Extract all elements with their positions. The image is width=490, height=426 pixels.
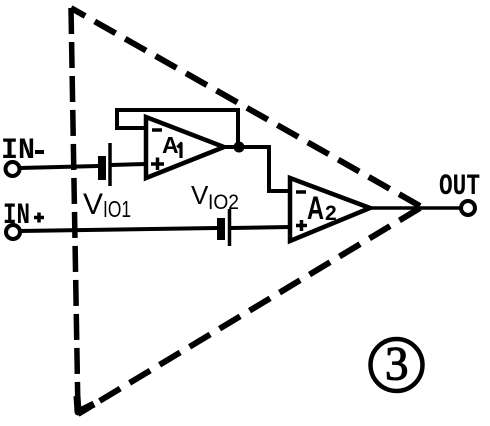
figure number 3 circled	[371, 338, 423, 392]
svg-text:V: V	[191, 180, 209, 210]
label IN-	[1, 134, 44, 168]
dashed boundary triangle left side	[71, 8, 78, 414]
op-amp A1	[146, 117, 224, 178]
feedback wire A1 output to A1 minus input	[117, 110, 238, 147]
svg-text:3: 3	[385, 338, 409, 391]
junction node at A1 output	[234, 142, 245, 153]
wire VIO1 to A1 plus input	[111, 164, 146, 165]
wire A2 output to OUT terminal	[370, 206, 461, 210]
svg-text:IO1: IO1	[103, 196, 131, 222]
wire IN- terminal to VIO1	[20, 166, 99, 168]
terminal IN+	[6, 225, 20, 239]
label IN+	[3, 199, 44, 233]
op-amp A2	[290, 178, 370, 241]
svg-text:A: A	[162, 132, 179, 158]
wire IN+ terminal to VIO2	[20, 228, 218, 231]
wire VIO2 to A2 plus input	[231, 227, 290, 228]
svg-text:V: V	[83, 188, 103, 221]
svg-text:IO2: IO2	[208, 191, 239, 214]
label VIO1	[83, 188, 131, 222]
dashed boundary triangle top side	[71, 8, 420, 206]
svg-text:IN: IN	[3, 199, 30, 233]
svg-text:IN: IN	[1, 134, 35, 168]
dashed boundary triangle bottom side	[78, 208, 420, 414]
svg-text:2: 2	[325, 202, 337, 225]
svg-text:OUT: OUT	[439, 170, 480, 204]
boundary triangle bottom-left corner	[77, 396, 94, 412]
battery VIO2 offset source	[217, 209, 230, 246]
terminal IN-	[6, 162, 20, 176]
label OUT	[439, 170, 480, 204]
battery VIO1 offset source	[98, 143, 110, 186]
label VIO2	[191, 180, 239, 214]
terminal OUT	[461, 201, 475, 215]
wire A1 output to A2 minus input	[224, 147, 290, 191]
svg-text:A: A	[307, 190, 324, 226]
